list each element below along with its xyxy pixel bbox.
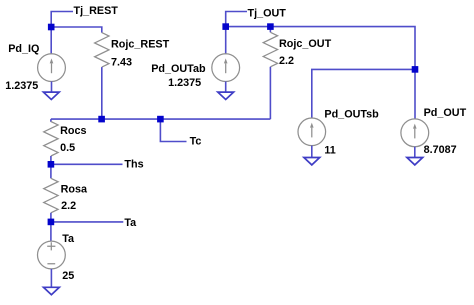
svg-text:Tj_OUT: Tj_OUT bbox=[248, 7, 287, 19]
wire Pd_OUTsb bottom lead bbox=[311, 146, 313, 158]
svg-text:Rocs: Rocs bbox=[60, 125, 86, 137]
wire junction A to Pd_IQ top bbox=[50, 27, 52, 54]
wire Ta stub bbox=[51, 221, 123, 223]
wire Tj_OUT tick bbox=[226, 12, 247, 27]
ground (Ta) bbox=[44, 287, 60, 294]
svg-text:Pd_OUT: Pd_OUT bbox=[424, 107, 467, 119]
wire Ths stub bbox=[51, 163, 123, 165]
wire junction A to Rojc_REST top bbox=[51, 27, 102, 33]
current source Pd_IQ bbox=[5, 43, 65, 92]
wire Pd_IQ bottom lead bbox=[51, 82, 53, 93]
svg-text:Tc: Tc bbox=[190, 136, 202, 148]
svg-text:Ta: Ta bbox=[62, 233, 75, 245]
resistor Rojc_OUT bbox=[263, 32, 277, 67]
junction F bbox=[222, 23, 229, 30]
junction C bbox=[157, 116, 164, 123]
wire junction E to Ta source bbox=[50, 222, 52, 241]
junction E bbox=[48, 219, 55, 226]
resistor Rojc_REST bbox=[95, 33, 109, 68]
junction D bbox=[48, 161, 55, 168]
wire Ta bottom lead bbox=[50, 269, 52, 287]
ground (Pd_OUTsb) bbox=[304, 158, 320, 165]
wire junction F to Pd_OUTab top bbox=[225, 27, 227, 55]
svg-text:2.2: 2.2 bbox=[61, 200, 76, 212]
wire Pd_OUTab bottom lead bbox=[225, 82, 227, 93]
resistor Rocs bbox=[50, 119, 52, 122]
current source Pd_OUT bbox=[401, 107, 467, 156]
svg-text:0.5: 0.5 bbox=[60, 142, 75, 154]
ground (Pd_OUTab) bbox=[218, 92, 234, 99]
svg-text:Rojc_OUT: Rojc_OUT bbox=[279, 38, 332, 50]
current source Pd_OUTsb bbox=[298, 109, 379, 157]
svg-text:25: 25 bbox=[62, 270, 74, 282]
ground (Pd_IQ) bbox=[43, 92, 59, 99]
wire Tj_REST tick bbox=[51, 12, 73, 28]
wire Tc stub bbox=[160, 119, 186, 141]
wire Pd_OUT bottom lead bbox=[414, 147, 416, 158]
junction B bbox=[98, 116, 105, 123]
wire top bus to right bbox=[226, 27, 415, 70]
wire junction H to Pd_OUT bbox=[414, 69, 416, 119]
svg-text:Tj_REST: Tj_REST bbox=[74, 5, 119, 17]
resistor Rosa bbox=[50, 164, 52, 178]
wire junction H to Pd_OUTsb bbox=[312, 69, 415, 118]
svg-text:1.2375: 1.2375 bbox=[168, 77, 201, 89]
svg-text:Pd_OUTsb: Pd_OUTsb bbox=[324, 109, 379, 121]
svg-text:1.2375: 1.2375 bbox=[5, 80, 38, 92]
voltage source Ta bbox=[38, 233, 75, 282]
svg-text:11: 11 bbox=[324, 145, 335, 157]
svg-text:Pd_IQ: Pd_IQ bbox=[8, 43, 39, 55]
wire main bus Tc bbox=[51, 118, 271, 120]
wire junction G to Rojc_OUT bbox=[269, 27, 271, 33]
wire Rojc_REST bottom lead bbox=[101, 67, 103, 119]
svg-text:7.43: 7.43 bbox=[111, 56, 132, 68]
svg-text:Rosa: Rosa bbox=[61, 183, 88, 195]
svg-text:Ths: Ths bbox=[124, 159, 143, 171]
junction G bbox=[267, 23, 274, 30]
wire Rojc_OUT bottom lead bbox=[269, 67, 271, 119]
junction A bbox=[48, 24, 55, 31]
svg-text:8.7087: 8.7087 bbox=[424, 144, 457, 156]
junction H bbox=[412, 66, 419, 73]
ground (Pd_OUT) bbox=[407, 158, 423, 165]
svg-text:Ta: Ta bbox=[124, 217, 137, 229]
svg-text:Rojc_REST: Rojc_REST bbox=[111, 38, 170, 50]
current source Pd_OUTab bbox=[151, 54, 239, 90]
svg-text:2.2: 2.2 bbox=[279, 55, 294, 67]
svg-text:Pd_OUTab: Pd_OUTab bbox=[151, 63, 206, 75]
